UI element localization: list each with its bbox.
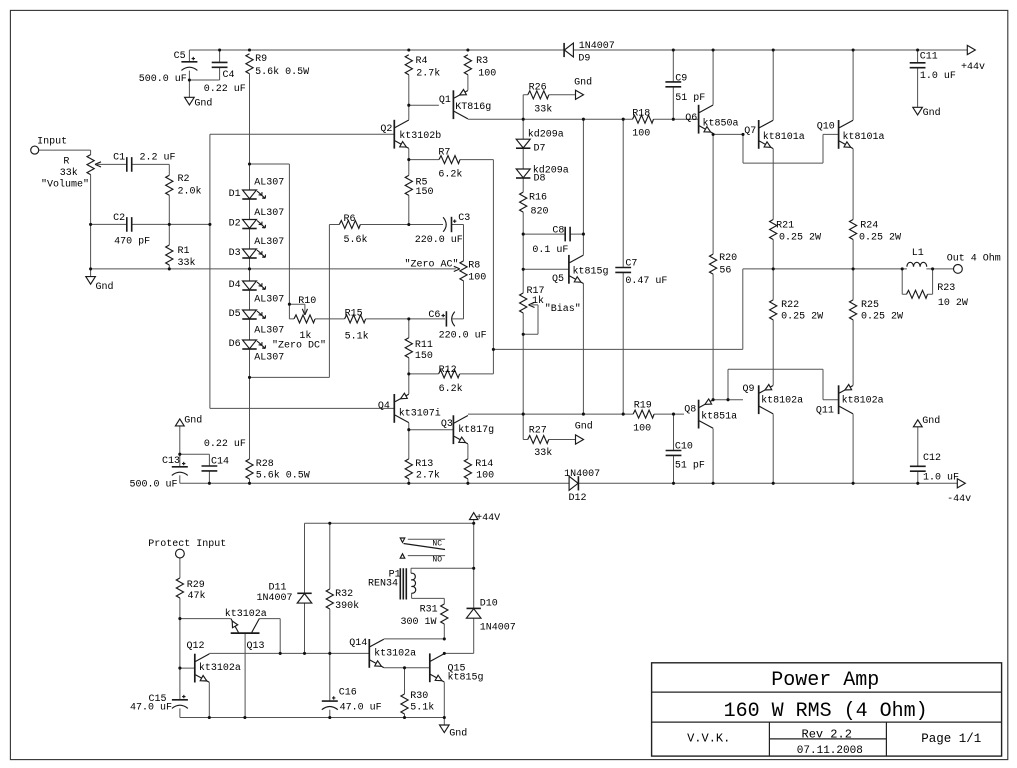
svg-text:0.25 2W: 0.25 2W — [859, 233, 901, 244]
svg-text:AL307: AL307 — [254, 208, 284, 219]
svg-text:0.22 uF: 0.22 uF — [204, 439, 246, 450]
svg-text:"Volume": "Volume" — [41, 179, 89, 191]
svg-text:Q3: Q3 — [441, 419, 453, 430]
svg-text:33k: 33k — [178, 257, 196, 269]
svg-text:R23: R23 — [937, 283, 955, 294]
svg-text:Q7: Q7 — [744, 126, 756, 137]
svg-text:R26: R26 — [529, 82, 547, 93]
svg-text:R11: R11 — [415, 340, 433, 351]
svg-text:47k: 47k — [188, 590, 206, 602]
svg-text:Gnd: Gnd — [922, 415, 940, 427]
svg-text:C10: C10 — [675, 442, 693, 453]
svg-text:R22: R22 — [781, 300, 799, 311]
svg-text:5.1k: 5.1k — [345, 331, 369, 343]
svg-text:6.2k: 6.2k — [438, 169, 462, 181]
svg-text:kt815g: kt815g — [573, 266, 609, 278]
svg-text:R30: R30 — [410, 691, 428, 702]
svg-text:kt8102a: kt8102a — [842, 395, 884, 407]
svg-text:"Zero AC": "Zero AC" — [405, 259, 459, 271]
svg-text:+44v: +44v — [961, 62, 985, 73]
svg-text:D7: D7 — [534, 143, 546, 154]
svg-text:33k: 33k — [534, 103, 552, 115]
svg-text:0.25 2W: 0.25 2W — [861, 311, 903, 322]
svg-text:R24: R24 — [860, 221, 878, 232]
svg-text:AL307: AL307 — [254, 295, 284, 306]
svg-text:C13: C13 — [162, 456, 180, 467]
svg-text:kt815g: kt815g — [448, 671, 484, 683]
svg-text:+44V: +44V — [476, 513, 500, 524]
svg-text:56: 56 — [719, 266, 731, 277]
svg-text:C5: C5 — [174, 51, 186, 62]
svg-text:R12: R12 — [439, 365, 457, 376]
svg-text:R: R — [63, 157, 69, 168]
svg-text:kt8102a: kt8102a — [761, 395, 803, 407]
svg-text:150: 150 — [416, 187, 434, 198]
svg-text:R13: R13 — [415, 459, 433, 470]
svg-text:5.6k 0.5W: 5.6k 0.5W — [256, 469, 310, 481]
svg-text:51 pF: 51 pF — [675, 93, 705, 104]
svg-text:C11: C11 — [920, 52, 938, 63]
svg-text:Page 1/1: Page 1/1 — [921, 732, 981, 746]
svg-text:500.0 uF: 500.0 uF — [130, 479, 178, 490]
svg-text:Q11: Q11 — [816, 405, 834, 416]
svg-text:R18: R18 — [632, 109, 650, 120]
svg-text:160 W RMS (4 Ohm): 160 W RMS (4 Ohm) — [724, 700, 928, 723]
svg-text:150: 150 — [415, 351, 433, 362]
svg-text:V.V.K.: V.V.K. — [687, 731, 730, 745]
svg-text:D4: D4 — [229, 280, 241, 291]
svg-text:1N4007: 1N4007 — [579, 41, 615, 52]
svg-text:5.6k: 5.6k — [344, 234, 368, 246]
svg-text:Gnd: Gnd — [449, 728, 467, 740]
svg-text:D2: D2 — [229, 219, 241, 230]
svg-text:D12: D12 — [569, 493, 587, 504]
svg-text:470 pF: 470 pF — [114, 236, 150, 247]
svg-text:kt3102a: kt3102a — [199, 662, 241, 674]
svg-text:C2: C2 — [113, 213, 125, 224]
svg-text:R8: R8 — [468, 260, 480, 271]
svg-text:R6: R6 — [344, 214, 356, 225]
svg-text:Gnd: Gnd — [194, 97, 212, 109]
svg-text:Input: Input — [37, 136, 67, 147]
svg-text:C4: C4 — [223, 70, 235, 81]
svg-text:kd209a: kd209a — [528, 129, 564, 141]
svg-text:R10: R10 — [298, 296, 316, 307]
svg-text:NC: NC — [432, 539, 442, 548]
svg-text:Gnd: Gnd — [96, 281, 114, 293]
svg-text:kt851a: kt851a — [701, 411, 737, 423]
svg-text:C3: C3 — [458, 213, 470, 224]
svg-text:Q13: Q13 — [247, 641, 265, 652]
svg-text:07.11.2008: 07.11.2008 — [797, 745, 863, 757]
svg-text:Q9: Q9 — [743, 384, 755, 395]
svg-text:"Bias": "Bias" — [545, 303, 581, 315]
svg-text:820: 820 — [531, 207, 549, 218]
svg-text:C7: C7 — [625, 259, 637, 270]
svg-text:Q8: Q8 — [684, 404, 696, 415]
svg-text:R16: R16 — [529, 193, 547, 204]
svg-text:Q6: Q6 — [685, 113, 697, 124]
svg-text:AL307: AL307 — [254, 237, 284, 248]
svg-text:Rev 2.2: Rev 2.2 — [802, 727, 852, 741]
svg-text:C6: C6 — [428, 310, 440, 321]
svg-text:C16: C16 — [339, 687, 357, 698]
svg-text:100: 100 — [633, 424, 651, 435]
svg-text:R31: R31 — [420, 605, 438, 616]
svg-text:10 2W: 10 2W — [938, 298, 968, 309]
svg-text:R19: R19 — [634, 401, 652, 412]
svg-text:1k: 1k — [532, 295, 544, 307]
svg-text:L1: L1 — [912, 248, 924, 259]
svg-text:C14: C14 — [211, 457, 229, 468]
svg-text:AL307: AL307 — [254, 178, 284, 189]
svg-text:300 1W: 300 1W — [401, 617, 437, 628]
svg-text:R1: R1 — [178, 246, 190, 257]
svg-text:AL307: AL307 — [254, 353, 284, 364]
svg-text:Gnd: Gnd — [574, 77, 592, 89]
svg-text:Q1: Q1 — [439, 95, 451, 106]
svg-text:47.0 uF: 47.0 uF — [130, 702, 172, 713]
svg-text:Gnd: Gnd — [575, 421, 593, 433]
svg-text:R21: R21 — [776, 221, 794, 232]
svg-text:33k: 33k — [534, 447, 552, 459]
svg-text:Q4: Q4 — [378, 401, 390, 412]
svg-text:0.25 2W: 0.25 2W — [781, 311, 823, 322]
svg-text:R9: R9 — [255, 54, 267, 65]
svg-text:D10: D10 — [480, 599, 498, 610]
svg-text:D5: D5 — [229, 309, 241, 320]
svg-text:kt3102a: kt3102a — [225, 608, 267, 620]
svg-text:47.0 uF: 47.0 uF — [340, 702, 382, 713]
svg-text:-44v: -44v — [947, 494, 971, 505]
svg-text:Protect Input: Protect Input — [148, 539, 226, 550]
svg-text:220.0 uF: 220.0 uF — [439, 331, 487, 342]
svg-text:D8: D8 — [534, 174, 546, 185]
svg-text:C12: C12 — [923, 453, 941, 464]
svg-text:kt817g: kt817g — [458, 424, 494, 436]
svg-text:2.2 uF: 2.2 uF — [140, 152, 176, 163]
svg-text:R28: R28 — [256, 459, 274, 470]
svg-text:220.0 uF: 220.0 uF — [415, 235, 463, 246]
svg-text:NO: NO — [432, 555, 442, 564]
svg-text:kt3107i: kt3107i — [399, 408, 441, 420]
svg-text:R27: R27 — [529, 425, 547, 436]
svg-text:D3: D3 — [229, 248, 241, 259]
svg-text:100: 100 — [632, 128, 650, 139]
svg-text:0.22 uF: 0.22 uF — [204, 84, 246, 95]
svg-text:2.7k: 2.7k — [416, 67, 440, 79]
svg-text:Out 4 Ohm: Out 4 Ohm — [947, 253, 1001, 265]
svg-text:100: 100 — [476, 471, 494, 482]
svg-text:1.0 uF: 1.0 uF — [920, 71, 956, 82]
svg-text:Power Amp: Power Amp — [771, 669, 879, 692]
svg-text:KT816g: KT816g — [455, 102, 491, 113]
svg-text:Gnd: Gnd — [923, 107, 941, 119]
svg-text:kt8101a: kt8101a — [763, 131, 805, 143]
svg-text:0.25 2W: 0.25 2W — [779, 233, 821, 244]
svg-text:Q10: Q10 — [817, 121, 835, 132]
svg-text:kt850a: kt850a — [703, 118, 739, 130]
svg-text:2.7k: 2.7k — [416, 470, 440, 482]
svg-text:0.47 uF: 0.47 uF — [625, 276, 667, 287]
svg-text:51 pF: 51 pF — [675, 461, 705, 472]
svg-text:D6: D6 — [229, 339, 241, 350]
svg-text:R15: R15 — [345, 309, 363, 320]
svg-text:Q12: Q12 — [187, 641, 205, 652]
svg-text:33k: 33k — [60, 167, 78, 179]
svg-text:R2: R2 — [178, 174, 190, 185]
svg-text:2.0k: 2.0k — [178, 185, 202, 197]
svg-text:5.1k: 5.1k — [410, 701, 434, 713]
svg-text:R7: R7 — [438, 148, 450, 159]
svg-text:"Zero DC": "Zero DC" — [272, 340, 326, 352]
svg-text:C1: C1 — [113, 152, 125, 163]
svg-text:R14: R14 — [475, 459, 493, 470]
svg-text:100: 100 — [468, 272, 486, 283]
svg-text:D1: D1 — [229, 189, 241, 200]
svg-text:D9: D9 — [578, 53, 590, 64]
svg-text:R20: R20 — [719, 253, 737, 264]
svg-text:5.6k 0.5W: 5.6k 0.5W — [255, 66, 309, 78]
svg-text:500.0 uF: 500.0 uF — [139, 74, 187, 85]
svg-text:1N4007: 1N4007 — [257, 593, 293, 604]
svg-text:100: 100 — [478, 68, 496, 79]
svg-text:R29: R29 — [187, 580, 205, 591]
svg-text:Q14: Q14 — [349, 638, 367, 649]
svg-text:AL307: AL307 — [254, 326, 284, 337]
svg-text:REN34: REN34 — [368, 579, 398, 590]
svg-text:1.0 uF: 1.0 uF — [923, 473, 959, 484]
svg-text:R25: R25 — [861, 300, 879, 311]
svg-text:6.2k: 6.2k — [439, 383, 463, 395]
svg-text:1N4007: 1N4007 — [480, 623, 516, 634]
svg-text:kt8101a: kt8101a — [843, 131, 885, 143]
svg-text:R3: R3 — [476, 56, 488, 67]
svg-text:kt3102a: kt3102a — [374, 647, 416, 659]
svg-text:Q5: Q5 — [552, 274, 564, 285]
svg-text:R4: R4 — [416, 56, 428, 67]
svg-text:C8: C8 — [552, 226, 564, 237]
svg-text:1N4007: 1N4007 — [564, 469, 600, 480]
svg-text:kt3102b: kt3102b — [399, 130, 441, 142]
svg-text:Q2: Q2 — [380, 124, 392, 135]
svg-text:Gnd: Gnd — [184, 415, 202, 427]
svg-text:C9: C9 — [675, 73, 687, 84]
svg-text:390k: 390k — [335, 600, 359, 612]
svg-text:R32: R32 — [335, 589, 353, 600]
svg-text:0.1 uF: 0.1 uF — [532, 245, 568, 256]
